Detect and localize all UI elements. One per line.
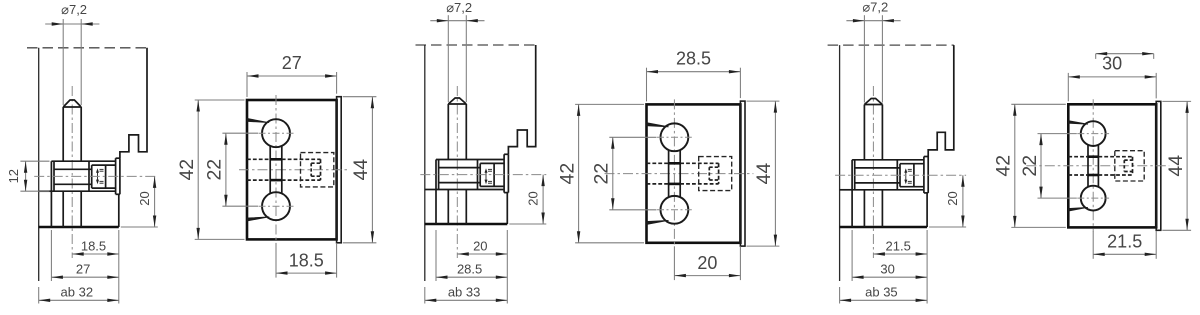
svg-text:20: 20	[137, 191, 152, 205]
fig C: body top edge left of flange	[425, 189, 436, 191]
fig B: dimension 42 height	[197, 100, 199, 239]
fig A: bolt head	[50, 161, 52, 191]
fig D: top width extension lines	[646, 68, 648, 102]
fig C: pin shaft	[447, 104, 449, 160]
fig F: height 42 extension lines	[1011, 103, 1066, 105]
fig F: hole spacing 22 extension lines	[1038, 133, 1077, 135]
fig E: body top edge left of flange	[840, 189, 853, 191]
fig E: housing left wall	[896, 160, 898, 190]
fig E: bore lines through body	[851, 190, 853, 227]
fig B: dimension 44 flange height	[371, 97, 373, 243]
fig C: panel front face line	[424, 45, 426, 281]
fig E: bolt head	[851, 160, 853, 190]
fig D: bottom-left spring fin	[647, 220, 669, 224]
fig F: hidden channel end	[1132, 157, 1134, 175]
fig E: pin vertical centerline	[872, 86, 874, 258]
svg-text:44: 44	[350, 159, 372, 181]
svg-text:27: 27	[76, 262, 90, 277]
fig B: flange lip edge-on strip	[337, 97, 342, 243]
svg-text:22: 22	[1019, 155, 1041, 177]
fig D: dimension 20 bottom	[674, 275, 740, 277]
fig A: panel front face line	[38, 48, 40, 281]
fig B: hidden channel end	[320, 159, 322, 180]
fig F: body outline	[1068, 104, 1156, 227]
fig A: right extension line for bottom dims	[118, 230, 120, 304]
fig F: dog-bone slot top circle	[1081, 121, 1106, 146]
fig F: dimension 30 top width	[1068, 76, 1156, 78]
svg-text:28.5: 28.5	[457, 262, 482, 277]
fig B: dog-bone slot top circle	[262, 119, 290, 147]
svg-text:42: 42	[993, 155, 1015, 177]
fig F: upper 20 bracket dimension	[1096, 53, 1154, 55]
fig D: hidden channel end	[718, 163, 720, 184]
svg-text:42: 42	[556, 163, 578, 185]
svg-text:21.5: 21.5	[1107, 232, 1142, 252]
fig A: body top edge left of flange	[39, 190, 52, 192]
fig B: hidden cam outline box	[301, 153, 334, 187]
fig F: slot sides	[1087, 145, 1089, 187]
fig B: body outline	[247, 100, 337, 239]
fig D: slot sides	[668, 150, 670, 197]
fig E: right extension line for bottom dims	[926, 230, 928, 304]
fig D: channel visible through slot (upper bar)	[669, 162, 681, 165]
svg-text:21.5: 21.5	[886, 238, 911, 253]
fig D: hidden channel lower line	[647, 183, 669, 185]
svg-text:12: 12	[6, 169, 21, 183]
svg-text:42: 42	[176, 159, 198, 181]
fig A: cam box	[91, 165, 93, 188]
fig D: hidden cam outline box	[699, 157, 732, 191]
fig B: horizontal centerline	[239, 169, 349, 171]
fig A: dimension 18.5	[72, 253, 119, 255]
fig D: channel visible through slot (lower bar)	[669, 183, 681, 186]
fig E side view	[828, 0, 967, 303]
fig C: bore lines through body	[435, 190, 437, 225]
fig B: hidden channel upper line	[247, 158, 270, 160]
svg-text:20: 20	[473, 238, 487, 253]
fig E: diameter 7.2 dimension	[846, 20, 900, 22]
fig F: dimension 21.5 bottom	[1093, 253, 1156, 255]
fig B: bottom dim extension lines	[275, 243, 277, 278]
fig A: bottom edge extension line	[121, 226, 158, 228]
fig B: dimension 27 top width	[247, 75, 337, 77]
fig D: dimension 28.5 top width	[647, 71, 741, 73]
fig A: panel top edge (dashed)	[27, 47, 147, 49]
fig E: dimension 30	[851, 230, 853, 281]
fig F: slot circle center ticks	[1077, 133, 1109, 135]
svg-text:⌀7,2: ⌀7,2	[862, 0, 888, 15]
fig D: body outline	[647, 104, 741, 242]
fig C: right extension line for bottom dims	[506, 230, 508, 304]
fig E: pin shaft	[863, 105, 865, 160]
fig A side view	[6, 2, 158, 304]
fig B: hidden cam slot marks	[311, 162, 320, 164]
fig A: body right edge	[118, 194, 120, 227]
fig E: mating panel hook profile	[928, 45, 954, 156]
fig F: hidden cam slot marks	[1124, 159, 1132, 161]
fig A: flange top edge	[51, 160, 115, 162]
fig C: housing lip	[503, 154, 505, 192]
fig C: flange top edge	[436, 159, 504, 161]
fig B: flange 44 extension lines	[343, 96, 377, 98]
fig B: hidden channel lower line	[247, 179, 270, 181]
fig D: horizontal centerline	[605, 173, 754, 175]
fig D: dog-bone slot top circle	[661, 123, 689, 151]
fig A: pin vertical centerline	[71, 86, 73, 258]
fig C: bolt shaft	[439, 167, 481, 169]
fig D: flange 44 extension lines	[747, 100, 780, 102]
fig C side view	[416, 0, 547, 303]
fig E: bolt shaft	[855, 167, 900, 169]
fig C: cam height adjust arrow symbol	[485, 171, 487, 183]
fig E: housing lip	[923, 157, 925, 193]
fig E: dimension 20 vertical	[962, 175, 964, 227]
fig B: dimension 18.5 bottom	[276, 272, 337, 274]
svg-text:20: 20	[945, 191, 960, 205]
svg-text:30: 30	[880, 262, 894, 277]
fig F: hidden channel upper line	[1068, 156, 1088, 158]
fig B: channel visible through slot (upper bar)	[270, 158, 282, 161]
fig C: flange bottom edge	[436, 189, 504, 191]
svg-text:ab 35: ab 35	[865, 285, 898, 300]
fig F: dimension 44 flange height	[1186, 101, 1188, 230]
fig E: horizontal centerline	[835, 174, 966, 176]
fig B: bottom-left spring fin	[247, 217, 269, 221]
fig A: horizontal centerline	[34, 175, 158, 177]
svg-text:22: 22	[204, 159, 226, 181]
fig D: hidden channel upper line	[647, 162, 669, 164]
fig B: dog-bone slot bottom circle	[262, 192, 290, 220]
svg-text:⌀7,2: ⌀7,2	[446, 0, 472, 15]
fig A: pin shaft	[62, 107, 64, 161]
fig A: dimension 20 vertical	[154, 176, 156, 227]
fig A: flange bottom edge	[51, 190, 115, 192]
fig F: bottom-left spring fin	[1068, 207, 1088, 211]
fig D: height 42 extension lines	[575, 103, 644, 105]
fig B: channel visible through slot (lower bar)	[270, 179, 282, 182]
fig E: bottom edge extension line	[929, 226, 966, 228]
fig A: cam height adjust arrow symbol	[97, 171, 99, 183]
fig A: dimension ab 32	[38, 287, 40, 304]
fig C: dimension 28.5	[435, 230, 437, 281]
fig A: bolt flange 12 dimension	[20, 160, 49, 162]
fig C: pin chamfered tip	[448, 98, 466, 104]
fig C: bolt head	[435, 160, 437, 190]
fig B: slot sides	[269, 146, 271, 194]
fig C: housing left wall	[477, 160, 479, 190]
fig C: bottom edge extension line	[509, 223, 546, 225]
svg-text:20: 20	[525, 191, 540, 205]
svg-text:27: 27	[282, 53, 302, 73]
fig A: diameter 7.2 dimension	[45, 23, 99, 25]
fig E: panel front face line	[839, 45, 841, 281]
fig F: hidden channel lower line	[1068, 174, 1088, 176]
fig D: hidden cam slot marks	[709, 166, 718, 168]
svg-text:28.5: 28.5	[676, 49, 711, 69]
svg-text:18.5: 18.5	[289, 250, 324, 270]
fig B: hole spacing 22 extension lines	[222, 132, 258, 134]
fig C: panel top edge (dashed)	[416, 44, 536, 46]
fig B: height 42 extension lines	[195, 99, 245, 101]
fig B: vertical centerline	[275, 95, 277, 243]
fig A: diameter 7.2 extension lines	[62, 19, 64, 105]
fig D: hole spacing 22 extension lines	[609, 136, 656, 138]
fig E: dimension 21.5	[873, 253, 927, 255]
fig A: dimension 27	[50, 230, 52, 281]
fig D: vertical centerline	[673, 99, 675, 246]
svg-text:20: 20	[697, 253, 717, 273]
fig F: channel visible through slot (lower bar)	[1088, 174, 1098, 177]
fig F: dimension 42 height	[1014, 104, 1016, 227]
svg-text:ab 33: ab 33	[448, 285, 481, 300]
fig D: bottom dim extension lines	[673, 246, 675, 280]
fig E: cam height adjust arrow symbol	[905, 171, 907, 183]
fig C: body right edge	[506, 193, 508, 224]
fig F: flange lip edge-on strip	[1156, 101, 1161, 230]
fig D: dimension 44 flange height	[774, 101, 776, 246]
fig C: mating panel hook profile	[508, 45, 535, 154]
fig F: channel visible through slot (upper bar)	[1088, 155, 1098, 158]
fig E: pin chamfered tip	[864, 99, 882, 105]
fig E: flange top edge	[852, 159, 924, 161]
svg-text:⌀7,2: ⌀7,2	[61, 2, 87, 17]
fig A: pin chamfered tip	[63, 100, 81, 107]
fig E: flange bottom edge	[852, 189, 924, 191]
fig C: pin vertical centerline	[456, 86, 458, 258]
svg-text:30: 30	[1102, 54, 1122, 74]
fig F: flange 44 extension lines	[1162, 100, 1191, 102]
svg-text:22: 22	[591, 163, 613, 185]
fig D: flange lip edge-on strip	[740, 101, 745, 246]
fig A: housing left wall	[88, 161, 90, 191]
fig A: bore lines through body	[50, 191, 52, 227]
fig B front view	[176, 53, 376, 278]
fig A: body bottom edge	[39, 226, 119, 228]
svg-text:44: 44	[753, 163, 775, 185]
fig B: top-left spring fin	[247, 118, 269, 122]
fig B: top width extension lines	[246, 72, 248, 97]
fig C: body bottom edge	[425, 223, 508, 225]
fig F: vertical centerline	[1092, 99, 1094, 231]
fig F: top-left spring fin	[1068, 121, 1088, 125]
fig F front view	[993, 52, 1192, 259]
fig C: diameter 7.2 extension lines	[447, 15, 449, 102]
fig E: dimension ab 35	[839, 287, 841, 304]
fig A: housing lip	[115, 158, 117, 194]
svg-text:18.5: 18.5	[81, 238, 106, 253]
fig F: bottom dim extension lines	[1092, 231, 1094, 259]
fig F: dog-bone slot bottom circle	[1081, 186, 1106, 211]
fig E: cam box	[899, 164, 901, 187]
fig F: top width extension lines	[1067, 73, 1069, 101]
fig A: mating panel hook profile	[120, 48, 147, 158]
fig E: diameter 7.2 extension lines	[863, 15, 865, 102]
fig E: body right edge	[926, 193, 928, 227]
fig F: dimension 22 hole spacing	[1040, 134, 1042, 199]
svg-text:44: 44	[1165, 155, 1187, 177]
fig F: hidden cam outline box	[1115, 151, 1144, 181]
svg-text:ab 32: ab 32	[61, 285, 94, 300]
fig C: dimension 20 vertical	[542, 175, 544, 224]
fig D: dimension 22 hole spacing	[612, 137, 614, 210]
fig C: dimension 20	[457, 253, 507, 255]
fig D: top-left spring fin	[647, 123, 669, 127]
fig C: cam box	[479, 163, 481, 186]
fig A: bolt shaft	[54, 168, 92, 170]
fig E: panel top edge (dashed)	[828, 44, 954, 46]
fig D front view	[556, 49, 779, 281]
fig C: dimension ab 33	[424, 287, 426, 304]
fig F: horizontal centerline	[1026, 165, 1169, 167]
fig C: horizontal centerline	[420, 174, 546, 176]
fig E: body bottom edge	[840, 226, 928, 228]
fig B: slot circle center ticks	[259, 132, 294, 134]
fig D: dog-bone slot bottom circle	[661, 196, 689, 224]
fig C: diameter 7.2 dimension	[430, 20, 484, 22]
fig B: dimension 22 hole spacing	[225, 133, 227, 206]
fig D: slot circle center ticks	[657, 136, 692, 138]
fig D: dimension 42 height	[578, 104, 580, 242]
